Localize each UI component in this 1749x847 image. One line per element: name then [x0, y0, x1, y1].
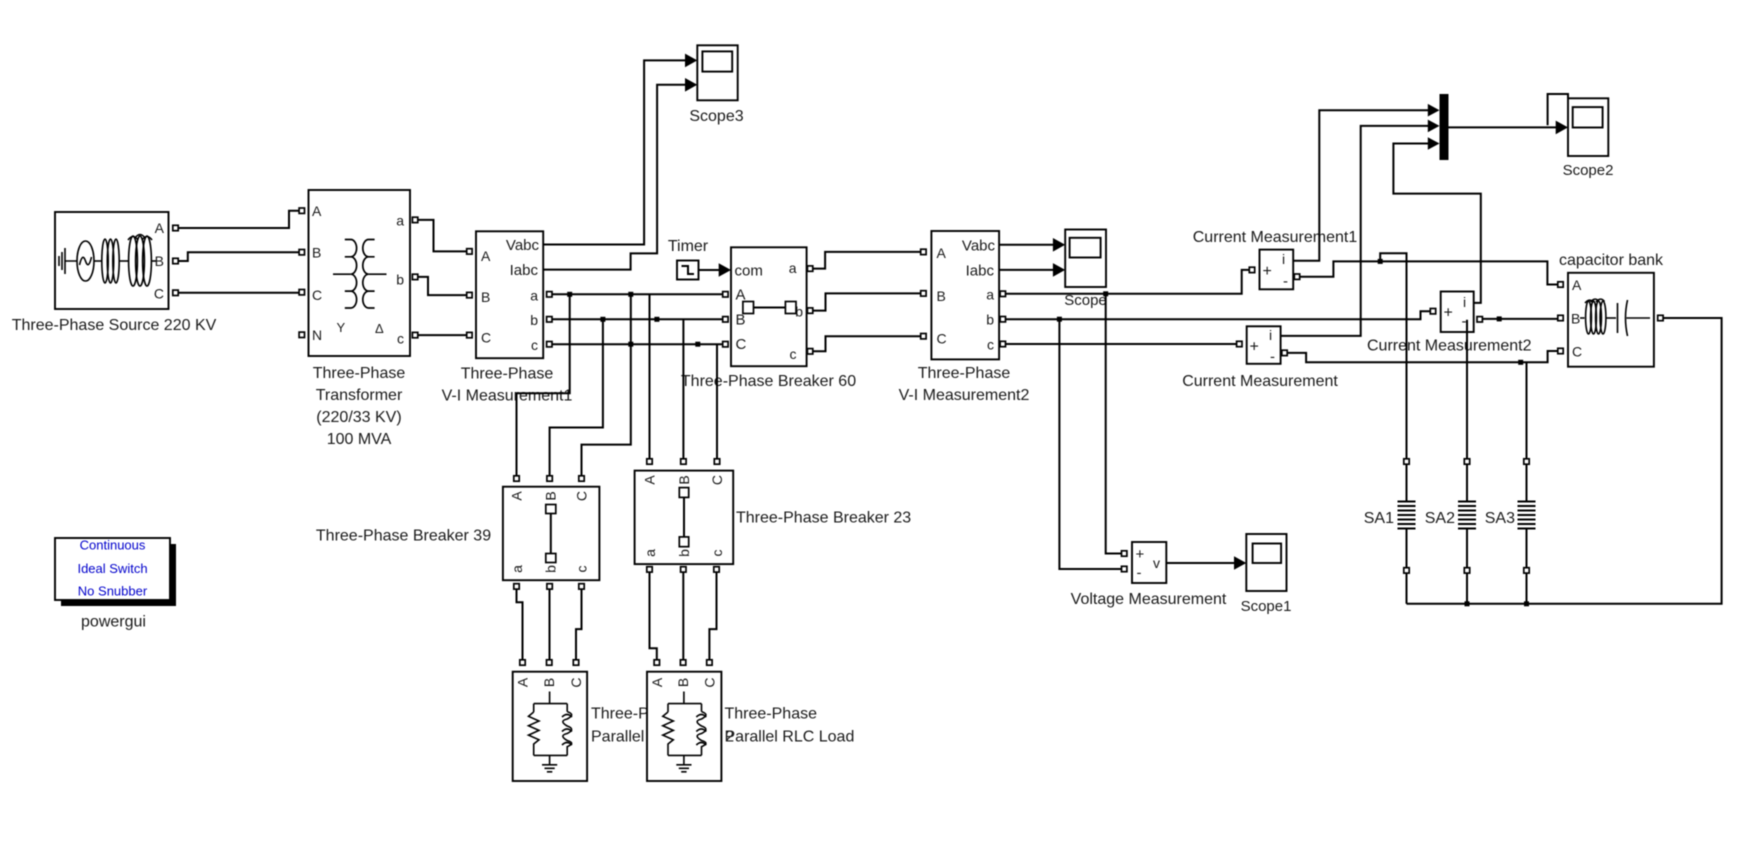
wire phase b V-I2 to current measurement2 +	[1005, 311, 1430, 319]
junction b-39	[600, 317, 605, 322]
port marker SA2 bottom	[1464, 568, 1469, 573]
svg-text:capacitor bank: capacitor bank	[1559, 252, 1664, 269]
svg-text:C: C	[568, 677, 584, 687]
svg-text:C: C	[709, 475, 725, 485]
wire SA1 bottom stub	[1406, 573, 1408, 604]
scope block	[1065, 230, 1106, 288]
port marker transformer C	[299, 290, 304, 295]
svg-text:a: a	[509, 565, 525, 573]
svg-text:c: c	[397, 331, 404, 347]
port marker breaker23 c	[714, 567, 719, 572]
port marker breaker39 B	[547, 476, 552, 481]
svg-text:a: a	[530, 288, 538, 304]
wire capacitor bank output to ground rail	[1407, 318, 1722, 604]
svg-text:B: B	[543, 491, 559, 500]
arrowhead mux input3	[1428, 137, 1440, 150]
wire current measurement i to mux input2	[1281, 126, 1429, 336]
port marker VM -	[1122, 566, 1127, 571]
arrowhead mux input1	[1428, 104, 1440, 117]
svg-text:A: A	[515, 677, 531, 687]
junction a-drop2	[628, 292, 633, 297]
wire breaker60 b to V-I2 B	[813, 293, 921, 310]
port marker breaker39 c	[579, 584, 584, 589]
port marker V-I1 a	[547, 292, 552, 297]
svg-text:No Snubber: No Snubber	[78, 584, 148, 599]
svg-text:Three-Phase: Three-Phase	[461, 366, 554, 383]
svg-text:b: b	[986, 311, 994, 327]
three-phase parallel RLC load 1 block	[513, 672, 587, 781]
port marker breaker23 B	[681, 459, 686, 464]
wire breaker23 a to load2 A	[650, 572, 657, 660]
port marker transformer N (unconnected)	[299, 332, 304, 337]
port marker V-I1 b	[547, 317, 552, 322]
port marker load1 C	[573, 660, 578, 665]
svg-text:Three-Phase: Three-Phase	[918, 365, 1011, 382]
port marker transformer c	[412, 332, 417, 337]
svg-text:Three-Phase Source 220 KV: Three-Phase Source 220 KV	[12, 317, 217, 334]
svg-text:c: c	[709, 550, 725, 557]
port marker CM1 +	[1249, 267, 1254, 272]
arrowhead scope input1	[1053, 238, 1065, 252]
port marker capacitor bank A	[1558, 282, 1563, 287]
wire phase a down to breaker23 A	[649, 294, 651, 459]
port marker transformer B	[299, 250, 304, 255]
port marker transformer a	[412, 217, 417, 222]
wire branch over to surge arrester SA1	[1380, 253, 1406, 459]
wire current measurement2 - to capacitor bank B	[1482, 318, 1558, 320]
port marker V-I2 A	[921, 249, 926, 254]
wire current measurement1 - to capacitor bank A	[1300, 261, 1558, 284]
svg-text:b: b	[530, 312, 538, 328]
wire SA2 top stub	[1466, 464, 1468, 568]
svg-text:Current Measurement2: Current Measurement2	[1367, 338, 1532, 355]
current measurement2 block	[1441, 292, 1474, 333]
scope1 block	[1246, 534, 1286, 591]
current measurement1 block	[1260, 250, 1294, 290]
port marker VM +	[1122, 551, 1127, 556]
junction a-39	[567, 292, 572, 297]
wire phase c V-I2 to current measurement +	[1005, 343, 1236, 345]
svg-text:A: A	[481, 248, 491, 264]
wire phase a down to breaker39 A	[517, 294, 570, 476]
source icon (AC source, impedance coils)	[59, 235, 156, 287]
port marker SA1 top	[1404, 459, 1409, 464]
wire V-I1 Iabc to scope3 input2	[543, 85, 686, 270]
three-phase breaker 39 block	[503, 487, 600, 581]
svg-text:Continuous: Continuous	[80, 538, 146, 553]
port marker breaker60 a	[807, 266, 812, 271]
scope2 block	[1568, 98, 1608, 156]
svg-text:-: -	[1137, 565, 1142, 582]
svg-text:Current Measurement: Current Measurement	[1182, 373, 1338, 390]
svg-text:-: -	[1462, 313, 1467, 330]
port marker V-I1 B	[467, 292, 472, 297]
port marker breaker39 b	[547, 584, 552, 589]
port marker breaker23 a	[647, 567, 652, 572]
svg-text:SA2: SA2	[1425, 510, 1455, 527]
svg-text:Vabc: Vabc	[506, 237, 540, 254]
junction c-39	[628, 342, 633, 347]
wire breaker23 b to load2 B	[682, 572, 684, 660]
port marker V-I1 C	[467, 332, 472, 337]
port marker breaker39 C	[579, 476, 584, 481]
svg-text:a: a	[642, 549, 658, 557]
wire V-I2 Iabc to scope	[999, 269, 1054, 271]
wire V-I2 Vabc to scope	[999, 244, 1054, 246]
label Three-Phase Transformer (220/33 KV) 100 MVA	[313, 365, 406, 448]
svg-text:Timer: Timer	[668, 238, 709, 255]
svg-text:Ideal Switch: Ideal Switch	[77, 561, 147, 576]
svg-text:a: a	[789, 260, 797, 276]
wire transformer c to V-I1 C	[418, 334, 467, 336]
svg-text:+: +	[1136, 546, 1145, 563]
current measurement block	[1247, 326, 1281, 365]
wire breaker39 b to load1 B	[549, 589, 551, 660]
svg-text:powergui: powergui	[81, 614, 146, 631]
wire breaker39 c to load1 C	[576, 589, 582, 660]
wire branch to surge arrester SA2	[1466, 320, 1468, 459]
wire mux to scope2	[1449, 126, 1558, 128]
port marker V-I1 c	[547, 342, 552, 347]
junction long A-line to SA1	[1378, 259, 1383, 264]
surge arrester SA2	[1458, 502, 1476, 529]
junction a to VM	[1103, 291, 1108, 296]
wire phase b down to breaker39 B	[550, 319, 603, 476]
svg-text:SA3: SA3	[1485, 510, 1515, 527]
port marker breaker23 A	[647, 459, 652, 464]
svg-text:com: com	[735, 263, 763, 280]
three-phase transformer block	[309, 190, 411, 356]
svg-text:Three-Phase Breaker 60: Three-Phase Breaker 60	[681, 373, 856, 390]
svg-text:Iabc: Iabc	[966, 262, 995, 279]
svg-text:A: A	[937, 245, 947, 261]
svg-text:C: C	[574, 491, 590, 501]
label Three-Phase V-I Measurement2	[899, 365, 1030, 404]
svg-text:B: B	[481, 289, 490, 305]
svg-text:B: B	[937, 288, 946, 304]
svg-text:a: a	[986, 286, 994, 302]
svg-text:Δ: Δ	[375, 321, 384, 336]
svg-text:b: b	[396, 272, 404, 288]
svg-text:Three-Phase Breaker 23: Three-Phase Breaker 23	[736, 510, 911, 527]
port marker load1 B	[547, 660, 552, 665]
wire breaker39 a to load1 A	[517, 589, 523, 660]
wire voltage measurement v to scope1	[1166, 562, 1235, 564]
capacitor bank block	[1568, 273, 1654, 367]
junction C-line to SA3	[1518, 360, 1523, 365]
capacitor bank icon (inductor + capacitor)	[1580, 299, 1650, 336]
svg-text:+: +	[1263, 263, 1272, 280]
svg-text:A: A	[1572, 277, 1582, 293]
svg-text:A: A	[642, 475, 658, 485]
wire SA3 top stub	[1526, 464, 1528, 568]
wire V-I1 Vabc to scope3 input1	[543, 60, 686, 244]
port marker breaker39 a	[514, 584, 519, 589]
wire transformer b to V-I1 B	[418, 277, 467, 295]
wire current measurement1 i to mux input1	[1293, 110, 1428, 261]
svg-text:+: +	[1250, 339, 1259, 356]
svg-text:Scope2: Scope2	[1563, 162, 1614, 179]
svg-text:V-I Measurement1: V-I Measurement1	[442, 388, 573, 405]
port marker transformer A	[299, 208, 304, 213]
port marker SA2 top	[1464, 459, 1469, 464]
svg-text:C: C	[937, 331, 947, 347]
port marker CM -	[1282, 350, 1287, 355]
svg-text:A: A	[509, 491, 525, 501]
wire timer to breaker60 com	[699, 269, 720, 271]
port marker source A	[173, 225, 178, 230]
svg-text:c: c	[987, 337, 994, 353]
mux block	[1440, 94, 1449, 160]
wire source A to transformer A	[178, 211, 299, 228]
RLC load 1 icon (R and L parallel, ground)	[529, 692, 573, 772]
arrowhead scope3 input2	[685, 78, 697, 92]
wire phase a branch to voltage measurement +	[1106, 294, 1122, 554]
voltage measurement block	[1132, 542, 1166, 583]
svg-text:C: C	[736, 336, 747, 353]
arrowhead scope input2	[1053, 263, 1065, 277]
port marker V-I2 a	[1000, 291, 1005, 296]
junction b-23	[654, 317, 659, 322]
svg-text:c: c	[790, 346, 797, 362]
port marker breaker60 B	[723, 317, 728, 322]
port marker V-I2 C	[921, 334, 926, 339]
port marker breaker23 b	[681, 567, 686, 572]
port marker CM1 -	[1294, 274, 1299, 279]
wire current measurement - to capacitor bank C	[1287, 351, 1558, 362]
port marker source B	[173, 258, 178, 263]
port marker source C	[173, 290, 178, 295]
wire breaker60 a to V-I2 A	[813, 252, 921, 269]
svg-text:c: c	[574, 566, 590, 573]
wire source B to transformer B	[178, 252, 299, 261]
label Three-Phase Parallel RLC Load	[725, 706, 855, 746]
scope2 wire loop rectangle	[1548, 94, 1568, 125]
scope3 block	[697, 45, 737, 100]
wire source C to transformer C	[178, 292, 299, 294]
port marker breaker60 A	[723, 292, 728, 297]
junction b to VM	[1057, 317, 1062, 322]
port marker breaker39 A	[514, 476, 519, 481]
port marker capacitor bank C	[1558, 348, 1563, 353]
port marker load2 A	[654, 660, 659, 665]
svg-text:C: C	[481, 330, 491, 346]
junction ground rail SA2	[1465, 601, 1470, 606]
three-phase parallel RLC load 2 block	[647, 672, 721, 781]
surge arrester SA1	[1398, 502, 1416, 529]
junction ground rail SA3	[1524, 601, 1529, 606]
wire phase b V-I1 to breaker60 B	[552, 318, 723, 320]
wire transformer a to V-I1 A	[418, 220, 467, 252]
wire breaker23 c to load2 C	[709, 572, 716, 660]
port marker CM +	[1237, 341, 1242, 346]
svg-text:100 MVA: 100 MVA	[327, 431, 392, 448]
svg-text:Scope1: Scope1	[1241, 598, 1292, 615]
svg-text:C: C	[312, 287, 322, 303]
svg-text:Current Measurement1: Current Measurement1	[1193, 229, 1358, 246]
three-phase breaker 60 block	[731, 247, 807, 366]
wire breaker60 c to V-I2 C	[813, 336, 921, 351]
svg-text:b: b	[543, 565, 559, 573]
wire phase a V-I1 to breaker60 A	[552, 293, 723, 295]
svg-text:+: +	[1444, 305, 1453, 322]
svg-text:Three-Phase: Three-Phase	[313, 365, 406, 382]
wire phase c down to breaker23 C	[716, 344, 718, 459]
svg-text:a: a	[396, 213, 404, 229]
surge arrester SA3	[1518, 502, 1536, 529]
svg-text:B: B	[1571, 311, 1580, 327]
svg-text:A: A	[155, 220, 165, 236]
wire SA3 bottom stub	[1526, 573, 1528, 604]
transformer winding icon	[333, 240, 387, 309]
arrowhead breaker60 com	[719, 263, 731, 277]
svg-text:-: -	[1283, 273, 1288, 290]
svg-text:C: C	[154, 286, 164, 302]
three-phase source block	[55, 212, 169, 309]
three-phase V-I measurement2 block	[931, 231, 999, 359]
svg-text:v: v	[1153, 555, 1160, 571]
svg-text:Iabc: Iabc	[510, 262, 539, 279]
port marker SA3 top	[1524, 459, 1529, 464]
wire SA2 bottom stub	[1466, 573, 1468, 604]
three-phase breaker 23 block	[635, 471, 734, 564]
junction B-line at cap bank	[1497, 316, 1502, 321]
arrowhead scope2 input	[1556, 121, 1568, 135]
port marker load2 C	[707, 660, 712, 665]
timer block	[677, 261, 699, 280]
wire phase c V-I1 to breaker60 C	[552, 343, 723, 345]
wire current measurement2 i to mux input3	[1393, 144, 1480, 303]
svg-text:Vabc: Vabc	[962, 237, 996, 254]
svg-text:Y: Y	[337, 320, 346, 335]
svg-text:-: -	[1270, 349, 1275, 366]
port marker SA3 bottom	[1524, 568, 1529, 573]
svg-text:C: C	[1572, 344, 1582, 360]
port marker CM2 +	[1430, 309, 1435, 314]
wire branch to surge arrester SA3	[1526, 362, 1528, 459]
port marker load1 A	[520, 660, 525, 665]
three-phase V-I measurement1 block	[476, 231, 543, 358]
svg-text:B: B	[541, 678, 557, 687]
port marker load2 B	[680, 660, 685, 665]
port marker V-I1 A	[467, 249, 472, 254]
svg-text:Transformer: Transformer	[316, 387, 403, 404]
port marker transformer b	[412, 274, 417, 279]
svg-text:i: i	[1463, 294, 1466, 310]
wire SA1 top stub	[1406, 464, 1408, 568]
port marker CM2 -	[1477, 317, 1482, 322]
svg-text:Parallel RLC Load: Parallel RLC Load	[725, 729, 855, 746]
port marker V-I2 b	[1000, 317, 1005, 322]
junction c-23	[695, 342, 700, 347]
port marker breaker23 C	[714, 459, 719, 464]
arrowhead scope1 input	[1234, 556, 1246, 570]
svg-text:B: B	[312, 245, 321, 261]
wire phase b branch to voltage measurement -	[1059, 319, 1121, 569]
label Three-Phase V-I Measurement1	[442, 366, 573, 405]
port marker capacitor bank B	[1558, 315, 1563, 320]
svg-text:A: A	[649, 677, 665, 687]
svg-text:SA1: SA1	[1364, 510, 1394, 527]
wire phase b down to breaker23 B	[682, 319, 684, 459]
svg-text:C: C	[701, 677, 717, 687]
svg-text:B: B	[155, 253, 164, 269]
port marker SA1 bottom	[1404, 568, 1409, 573]
port marker breaker60 C	[723, 342, 728, 347]
svg-text:N: N	[312, 327, 322, 343]
wire phase c down to breaker39 C	[582, 294, 631, 476]
port marker capacitor bank out	[1658, 315, 1663, 320]
svg-text:Three-Phase Breaker 39: Three-Phase Breaker 39	[316, 528, 491, 545]
port marker V-I2 B	[921, 291, 926, 296]
svg-text:(220/33 KV): (220/33 KV)	[316, 409, 401, 426]
svg-text:Scope3: Scope3	[689, 108, 743, 125]
svg-text:B: B	[675, 678, 691, 687]
powergui block	[55, 538, 176, 607]
arrowhead mux input2	[1428, 120, 1440, 133]
svg-text:A: A	[312, 203, 322, 219]
svg-text:b: b	[676, 549, 692, 557]
svg-text:B: B	[676, 475, 692, 484]
svg-text:V-I Measurement2: V-I Measurement2	[899, 387, 1030, 404]
label Three-Phase Parallel RLC Load 2 (partly hidden)	[591, 706, 734, 746]
RLC load 2 icon (R and L parallel, ground)	[663, 692, 707, 772]
svg-text:Voltage Measurement: Voltage Measurement	[1071, 591, 1227, 608]
svg-text:c: c	[531, 337, 538, 353]
svg-text:i: i	[1282, 251, 1285, 267]
port marker V-I2 c	[1000, 341, 1005, 346]
svg-text:i: i	[1269, 327, 1272, 343]
arrowhead scope3 input1	[685, 54, 697, 68]
port marker breaker60 b	[807, 308, 812, 313]
svg-text:Three-Phase: Three-Phase	[725, 706, 818, 723]
wire phase a V-I2 to current measurement1 +	[1005, 270, 1249, 294]
port marker breaker60 c	[807, 349, 812, 354]
